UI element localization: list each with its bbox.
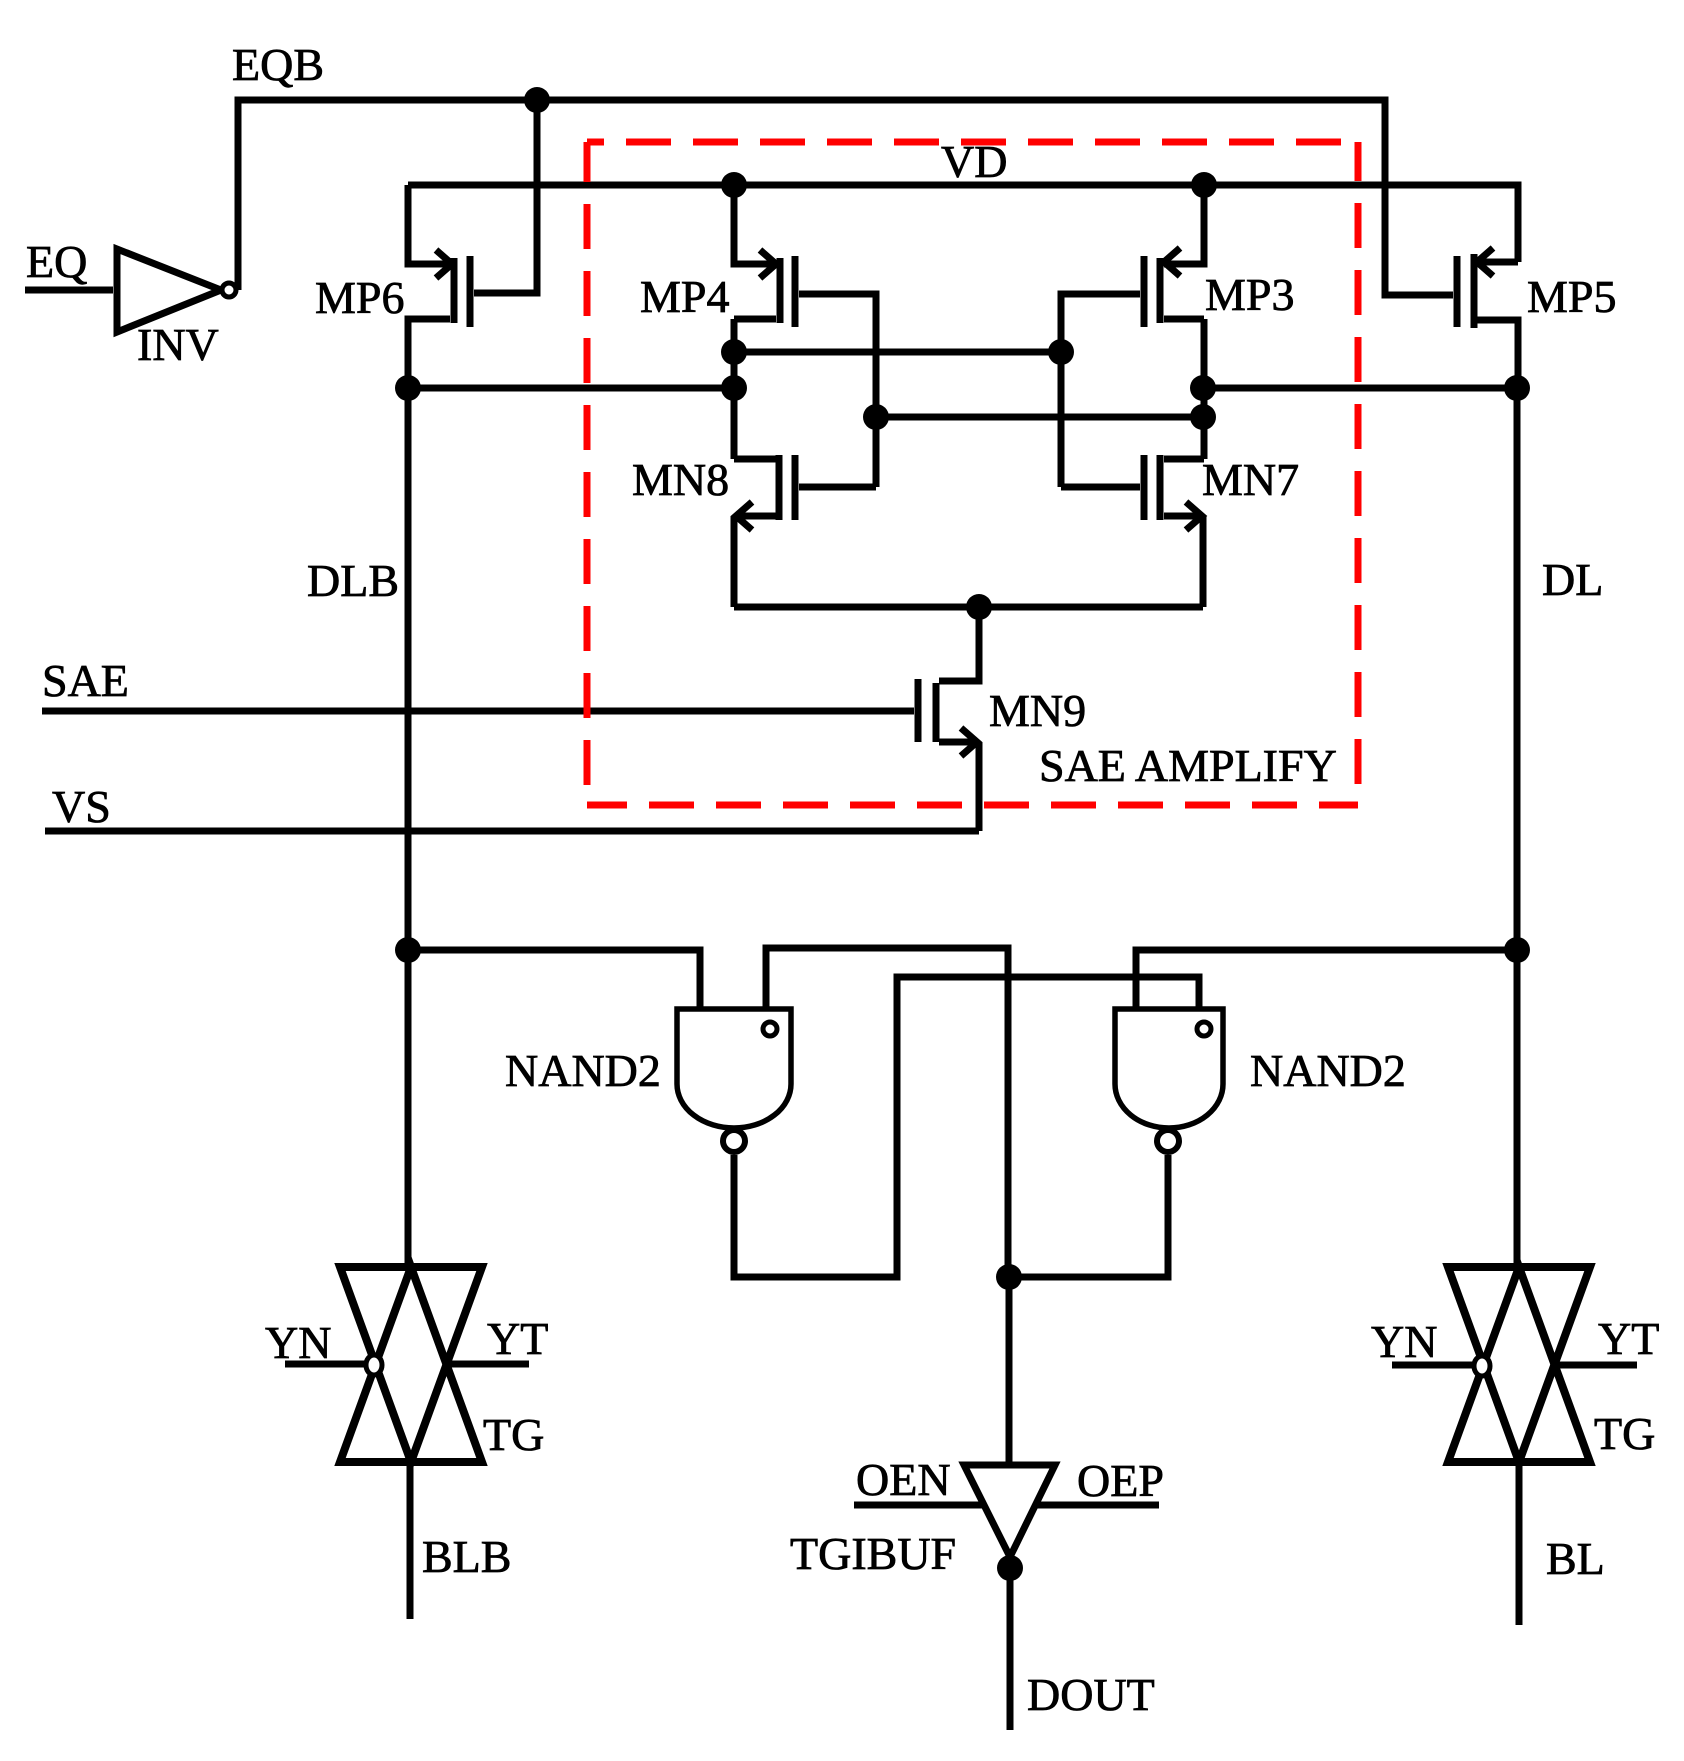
svg-text:YN: YN xyxy=(1371,1316,1437,1367)
node DLB-NAND junction xyxy=(395,937,421,963)
node VD-MP4 junction xyxy=(721,172,747,198)
wire EQ xyxy=(25,236,113,290)
svg-text:SAE AMPLIFY: SAE AMPLIFY xyxy=(1039,740,1337,791)
svg-text:NAND2: NAND2 xyxy=(1250,1045,1406,1096)
transistor MN8 xyxy=(632,454,876,607)
svg-text:EQ: EQ xyxy=(26,236,87,287)
node DL line xyxy=(1203,375,1530,401)
svg-text:TG: TG xyxy=(483,1409,544,1460)
wire DLB vertical xyxy=(307,388,408,1267)
tri-state buffer TGIBUF xyxy=(790,1454,1164,1579)
svg-text:NAND2: NAND2 xyxy=(505,1045,661,1096)
svg-text:MP3: MP3 xyxy=(1205,269,1294,320)
boundary box SAE AMPLIFY xyxy=(587,142,1358,805)
wire NAND1 right input feedback xyxy=(766,948,1008,1277)
wire DOUT xyxy=(1010,1558,1155,1730)
nand gate NAND2 right xyxy=(1115,1009,1406,1152)
node B cross-coupling wire xyxy=(863,375,1216,430)
svg-text:MP6: MP6 xyxy=(315,272,404,323)
svg-text:OEP: OEP xyxy=(1077,1455,1164,1506)
svg-text:MN7: MN7 xyxy=(1202,454,1299,505)
node DLB line xyxy=(395,375,734,401)
svg-text:VS: VS xyxy=(52,781,111,832)
transmission gate TG left xyxy=(265,1267,548,1462)
svg-text:TGIBUF: TGIBUF xyxy=(790,1528,956,1579)
transistor MP4 xyxy=(640,185,876,487)
svg-text:YT: YT xyxy=(1598,1313,1659,1364)
svg-text:MN8: MN8 xyxy=(632,454,729,505)
transistor MP6 xyxy=(315,185,470,388)
transistor MN7 xyxy=(1061,454,1299,607)
wire DL to NAND2 right-gate left input xyxy=(1136,950,1517,1009)
wire BL xyxy=(1519,1462,1605,1625)
svg-text:EQB: EQB xyxy=(232,39,324,90)
svg-text:DOUT: DOUT xyxy=(1027,1669,1155,1720)
wire DL vertical xyxy=(1517,388,1603,1267)
wire NAND1 output to NAND2 input xyxy=(734,977,1199,1277)
svg-text:BLB: BLB xyxy=(422,1531,511,1582)
node A cross-coupling wire xyxy=(721,339,1074,401)
svg-text:INV: INV xyxy=(137,319,219,370)
svg-text:MN9: MN9 xyxy=(989,685,1086,736)
svg-text:DLB: DLB xyxy=(307,555,399,606)
svg-text:YT: YT xyxy=(487,1313,548,1364)
svg-text:MP4: MP4 xyxy=(640,271,729,322)
node VD-MP3 junction xyxy=(1191,172,1217,198)
svg-text:OEN: OEN xyxy=(856,1454,951,1505)
svg-text:DL: DL xyxy=(1542,554,1603,605)
transistor MP5 xyxy=(1457,248,1616,388)
wire VD rail xyxy=(408,136,1518,262)
svg-text:TG: TG xyxy=(1594,1408,1655,1459)
wire VS xyxy=(45,781,979,832)
wire BLB xyxy=(410,1462,511,1619)
svg-text:SAE: SAE xyxy=(42,655,129,706)
node DL-NAND junction xyxy=(1504,937,1530,963)
wire latch common source xyxy=(734,594,1203,620)
svg-text:BL: BL xyxy=(1546,1533,1605,1584)
inverter INV xyxy=(117,249,236,370)
node TGIBUF input junction xyxy=(996,1264,1022,1465)
wire EQB xyxy=(232,39,1453,295)
wire NAND2 output to junction xyxy=(1009,1155,1168,1277)
svg-text:MP5: MP5 xyxy=(1527,271,1616,322)
node DOUT junction xyxy=(997,1555,1023,1581)
transmission gate TG right xyxy=(1371,1267,1659,1462)
wire DLB to NAND2 left input xyxy=(408,950,700,1009)
transistor MN9 xyxy=(918,607,1086,831)
wire SAE xyxy=(42,655,914,711)
svg-text:YN: YN xyxy=(265,1317,331,1368)
nand gate NAND2 left xyxy=(505,1009,791,1152)
node EQB junction xyxy=(474,87,550,293)
transistor MP3 xyxy=(1061,185,1294,487)
